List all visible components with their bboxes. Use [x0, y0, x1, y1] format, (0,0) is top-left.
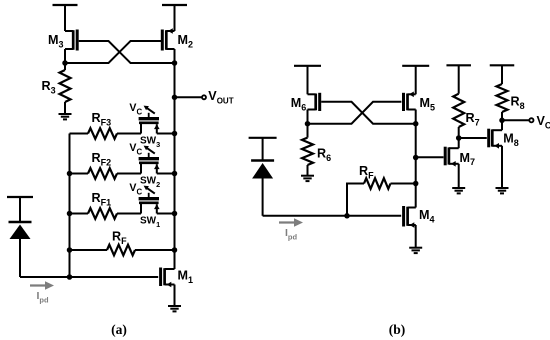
node VOUT junction — [172, 95, 178, 101]
node M3 drain — [62, 60, 68, 66]
label VC output — [537, 114, 550, 130]
caption (a) — [111, 322, 127, 337]
resistor RF1 — [70, 191, 142, 219]
wire bottom (a) — [20, 276, 158, 278]
resistor RF3 — [70, 111, 142, 139]
node VC (b) — [499, 118, 505, 124]
wire M3 drain to M2 gate — [65, 41, 161, 63]
VDD rail (b) M6 — [294, 66, 321, 95]
caption (b) — [389, 322, 406, 337]
resistor RF (b) — [347, 164, 416, 216]
VDD rail (b) R7 — [446, 65, 471, 93]
node M7 gate tap — [413, 155, 419, 161]
terminal VC — [529, 118, 533, 122]
wire M1 source to ground — [174, 285, 176, 307]
ground under M8 — [496, 188, 509, 193]
transistor M6 — [291, 93, 320, 124]
svg-text:(a): (a) — [111, 322, 127, 337]
resistor R3 — [42, 63, 71, 114]
label VC of SW3 — [129, 102, 154, 116]
wire VOUT — [175, 96, 203, 98]
VDD rail (b) R8 — [490, 65, 515, 84]
transistor M1 — [161, 268, 193, 288]
svg-text:(b): (b) — [389, 322, 406, 337]
wire M3 gate to M2 drain — [79, 41, 175, 63]
wire M8 source to ground — [501, 146, 503, 188]
wire main rail (b) — [415, 124, 417, 208]
wire M6 gate to M5 drain — [321, 102, 416, 124]
node RF left — [67, 247, 73, 253]
current arrow Ipd (b) — [279, 218, 303, 227]
ground under R6 — [301, 176, 314, 181]
label Ipd (a) — [37, 290, 50, 304]
resistor R7 — [453, 94, 479, 138]
resistor RF2 — [70, 151, 142, 179]
photodiode bias rail (a) — [0, 0, 1, 1]
label VOUT — [208, 89, 233, 105]
wire M7 source to ground — [458, 164, 460, 188]
wire bottom (b) — [263, 215, 402, 217]
terminal VOUT — [202, 95, 206, 99]
resistor RF (a) — [70, 230, 175, 256]
ground under M7 — [452, 188, 465, 193]
VDD rail (a) right — [162, 5, 187, 31]
wire left rail (a) — [69, 134, 71, 278]
node M2 drain — [172, 60, 178, 66]
switch SW3 — [139, 113, 175, 149]
wire M7 gate — [416, 156, 444, 158]
node M5 drain — [413, 121, 419, 127]
label VC of SW1 — [129, 182, 154, 196]
node M7 drain — [456, 135, 462, 141]
VDD rail (a) left — [53, 5, 78, 31]
node RF2 right — [172, 171, 178, 177]
transistor M2 — [162, 28, 193, 63]
label VC of SW2 — [129, 142, 154, 156]
ground under M4 — [409, 248, 422, 253]
transistor M5 — [404, 92, 436, 124]
photodiode D1 — [7, 197, 33, 277]
node RF stub (b) — [344, 213, 350, 219]
wire right rail (a) — [174, 63, 176, 269]
node RF3 right — [172, 131, 178, 137]
wire M4 source to ground — [415, 225, 417, 248]
node RF2 left — [67, 171, 73, 177]
node RF right — [172, 247, 178, 253]
switch SW1 — [139, 193, 175, 229]
current arrow Ipd (a) — [30, 281, 54, 290]
node RF1 left — [67, 211, 73, 217]
node RF right (b) — [413, 181, 419, 187]
switch SW2 — [139, 153, 175, 189]
transistor M3 — [48, 30, 77, 64]
ground under M1 — [168, 306, 181, 311]
node M6 drain — [305, 121, 311, 127]
photodiode D2 — [249, 138, 277, 216]
transistor M4 — [404, 206, 435, 228]
resistor R6 — [302, 124, 331, 176]
wire VC output — [502, 119, 529, 121]
VDD rail (b) M5 — [402, 66, 429, 95]
label Ipd (b) — [285, 227, 298, 241]
node bottom left rail — [67, 274, 73, 280]
wire M6 drain to M5 gate — [308, 102, 402, 124]
wire M8 gate — [459, 137, 487, 139]
resistor R8 — [497, 84, 525, 120]
node RF1 right — [172, 211, 178, 217]
ground under R3 — [59, 114, 72, 119]
wire M7 drain — [458, 138, 460, 148]
transistor M7 — [445, 147, 475, 168]
transistor M8 — [489, 129, 519, 149]
wire M8 drain — [501, 120, 503, 130]
